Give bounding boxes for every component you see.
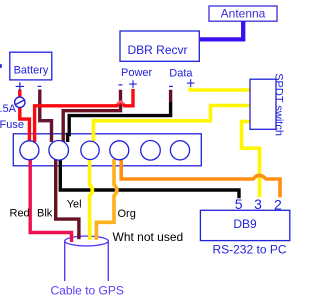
svg-text:-: -: [168, 77, 173, 94]
svg-text:Cable to GPS: Cable to GPS: [51, 284, 124, 298]
svg-text:.5A: .5A: [0, 103, 17, 115]
svg-text:+: +: [186, 76, 195, 93]
svg-text:+: +: [128, 77, 137, 94]
svg-text:RS-232 to PC: RS-232 to PC: [212, 243, 286, 257]
svg-text:Battery: Battery: [14, 65, 49, 77]
svg-text:DB9: DB9: [233, 217, 257, 231]
svg-text:Yel: Yel: [67, 199, 82, 211]
svg-text:-: -: [37, 77, 42, 94]
svg-text:-: -: [118, 76, 123, 93]
svg-text:5: 5: [235, 196, 243, 212]
svg-text:3: 3: [254, 196, 262, 212]
svg-text:Fuse: Fuse: [0, 119, 24, 131]
svg-text:2: 2: [274, 196, 282, 212]
svg-text:Wht not used: Wht not used: [113, 230, 184, 244]
svg-text:Antenna: Antenna: [221, 7, 266, 21]
svg-text:Blk: Blk: [37, 208, 53, 220]
svg-text:Org: Org: [118, 208, 136, 220]
svg-text:SPDT switch: SPDT switch: [273, 73, 285, 136]
svg-text:+: +: [15, 77, 25, 96]
svg-text:DBR Recvr: DBR Recvr: [127, 43, 187, 57]
svg-text:Red: Red: [10, 208, 30, 220]
